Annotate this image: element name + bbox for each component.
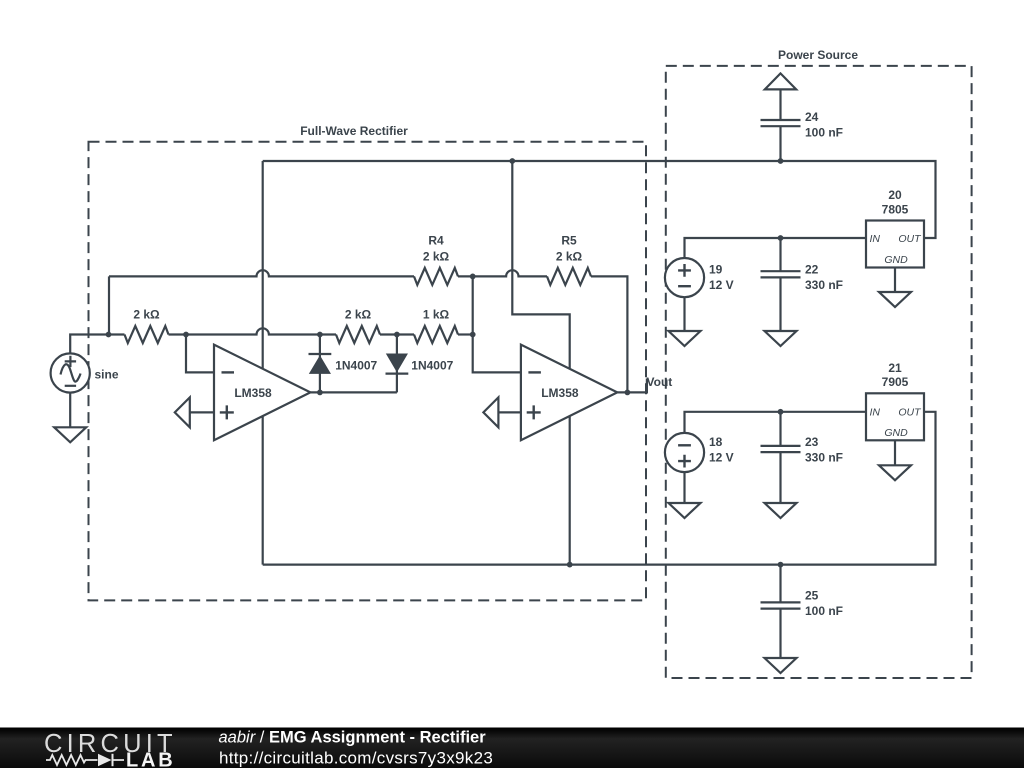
svg-text:GND: GND — [884, 427, 908, 439]
svg-text:aabir / EMG Assignment - Recti: aabir / EMG Assignment - Rectifier — [219, 729, 487, 747]
svg-text:1N4007: 1N4007 — [335, 359, 377, 373]
svg-text:21: 21 — [888, 361, 902, 375]
svg-text:22: 22 — [805, 263, 819, 277]
svg-text:18: 18 — [709, 435, 723, 449]
svg-text:12 V: 12 V — [709, 451, 734, 465]
svg-text:20: 20 — [888, 188, 902, 202]
svg-text:OUT: OUT — [898, 233, 922, 245]
svg-text:IN: IN — [870, 233, 881, 245]
svg-text:100 nF: 100 nF — [805, 126, 843, 140]
svg-text:OUT: OUT — [898, 407, 922, 419]
svg-text:R4: R4 — [428, 234, 444, 248]
svg-text:LM358: LM358 — [541, 386, 579, 400]
svg-text:R5: R5 — [561, 234, 577, 248]
svg-text:Power Source: Power Source — [778, 48, 858, 62]
svg-text:http://circuitlab.com/cvsrs7y3: http://circuitlab.com/cvsrs7y3x9k23 — [219, 749, 493, 768]
svg-text:LAB: LAB — [126, 750, 176, 768]
svg-text:1N4007: 1N4007 — [411, 359, 453, 373]
svg-text:2 kΩ: 2 kΩ — [556, 250, 583, 264]
svg-text:12 V: 12 V — [709, 278, 734, 292]
svg-text:25: 25 — [805, 589, 819, 603]
svg-text:330 nF: 330 nF — [805, 451, 843, 465]
svg-text:2 kΩ: 2 kΩ — [423, 250, 450, 264]
svg-text:7905: 7905 — [882, 375, 909, 389]
svg-text:23: 23 — [805, 435, 819, 449]
svg-text:Vout: Vout — [647, 375, 673, 389]
svg-text:330 nF: 330 nF — [805, 278, 843, 292]
svg-text:2 kΩ: 2 kΩ — [133, 308, 160, 322]
svg-text:IN: IN — [870, 407, 881, 419]
svg-text:100 nF: 100 nF — [805, 604, 843, 618]
svg-text:7805: 7805 — [882, 202, 909, 216]
svg-text:2 kΩ: 2 kΩ — [345, 308, 372, 322]
svg-text:1 kΩ: 1 kΩ — [423, 308, 450, 322]
svg-text:24: 24 — [805, 110, 819, 124]
svg-text:Full-Wave Rectifier: Full-Wave Rectifier — [300, 124, 408, 138]
svg-text:19: 19 — [709, 263, 723, 277]
svg-text:sine: sine — [95, 368, 119, 382]
svg-text:LM358: LM358 — [234, 386, 272, 400]
svg-text:GND: GND — [884, 254, 908, 266]
